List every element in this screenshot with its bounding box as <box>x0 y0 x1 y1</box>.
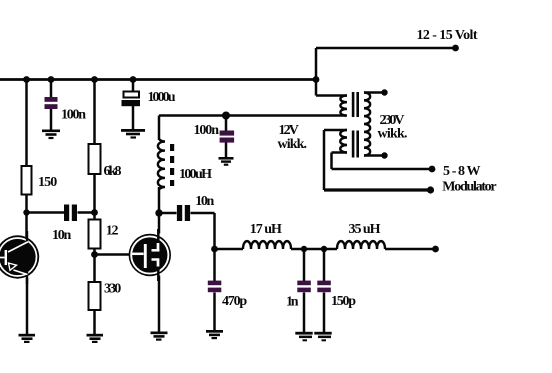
svg-text:150: 150 <box>38 175 57 190</box>
svg-text:150p: 150p <box>331 294 356 309</box>
svg-text:1n: 1n <box>286 295 299 310</box>
svg-text:100uH: 100uH <box>179 167 212 182</box>
svg-text:100n: 100n <box>61 107 86 122</box>
svg-text:17 uH: 17 uH <box>250 222 282 237</box>
svg-text:330: 330 <box>104 281 121 296</box>
svg-text:6k8: 6k8 <box>104 164 122 179</box>
svg-text:12 - 15 Volt: 12 - 15 Volt <box>417 28 478 43</box>
svg-text:100n: 100n <box>194 123 220 138</box>
svg-text:470p: 470p <box>222 294 247 309</box>
svg-text:12V: 12V <box>279 123 299 138</box>
svg-text:35 uH: 35 uH <box>349 222 381 237</box>
svg-text:10n: 10n <box>195 194 214 209</box>
svg-text:Modulator: Modulator <box>442 180 496 195</box>
svg-text:1000u: 1000u <box>148 90 176 105</box>
svg-text:12: 12 <box>106 223 119 238</box>
svg-text:wikk.: wikk. <box>378 127 408 142</box>
svg-text:10n: 10n <box>52 228 72 243</box>
svg-text:5 - 8 W: 5 - 8 W <box>443 164 481 179</box>
svg-text:wikk.: wikk. <box>278 137 308 152</box>
